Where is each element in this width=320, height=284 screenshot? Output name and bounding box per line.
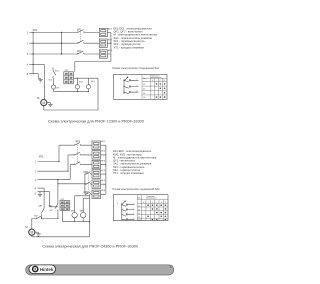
- svg-text:ЕК4: ЕК4: [101, 170, 106, 172]
- wire coil KM2 top: [83, 198, 89, 212]
- svg-text:ХТ1 - колодки клеммные: ХТ1 - колодки клеммные: [113, 171, 144, 175]
- heater EK5 s2: [92, 180, 101, 188]
- breaker QF2 label: [77, 50, 82, 53]
- svg-text:SА1: SА1: [38, 205, 43, 208]
- heater EK3: [99, 50, 107, 58]
- svg-text:3-4: 3-4: [143, 88, 145, 90]
- wire L4 bus 2: [38, 187, 45, 189]
- svg-text:1: 1: [133, 203, 134, 205]
- contactor KM2 contact: [86, 192, 92, 195]
- svg-text:1: 1: [137, 79, 138, 81]
- svg-text:3: 3: [27, 53, 29, 56]
- contactor coil KM1: [72, 212, 77, 217]
- svg-text:Конт.: Конт.: [138, 197, 142, 199]
- relay SK2 bulb: [75, 85, 79, 89]
- footer bar: [26, 265, 174, 275]
- svg-text:3-4: 3-4: [138, 209, 140, 211]
- svg-text:17: 17: [169, 265, 173, 269]
- heater EK1 label: [108, 29, 113, 31]
- svg-text:КМ1: КМ1: [71, 210, 76, 212]
- heater EK3 s2: [92, 160, 101, 168]
- svg-text:ЕК1: ЕК1: [108, 29, 113, 31]
- legend 1: [114, 26, 158, 49]
- breaker QF1 label: [77, 28, 82, 31]
- heater EK3 label: [108, 50, 113, 52]
- svg-text:М: М: [25, 225, 28, 229]
- heater EK6 s2 label: [101, 190, 106, 192]
- node dot KM branch: [57, 183, 85, 184]
- motor M1 s2: [29, 229, 35, 235]
- lamp HL1 bulb: [86, 85, 90, 89]
- switch SA1 pictogram 1: [120, 77, 139, 94]
- motor M1: [41, 100, 47, 106]
- node dot control top: [77, 78, 78, 79]
- svg-text:1: 1: [35, 161, 37, 164]
- svg-text:9-10: 9-10: [138, 219, 141, 221]
- switch SA1 pictogram 2: [117, 201, 135, 220]
- svg-text:переключателя: переключателя: [146, 198, 157, 200]
- svg-text:4: 4: [27, 64, 29, 67]
- logo Hintek pill: [29, 265, 56, 274]
- wire L4 bus: [29, 64, 44, 66]
- node dot star: [110, 43, 111, 44]
- svg-text:2: 2: [133, 208, 134, 210]
- svg-text:ЕК1: ЕК1: [101, 141, 106, 143]
- svg-text:Hintek: Hintek: [40, 267, 54, 272]
- wire SK2 stubs: [53, 79, 55, 92]
- svg-text:5-6: 5-6: [143, 93, 145, 95]
- node labels 1-5 left: [27, 32, 29, 76]
- svg-text:0: 0: [117, 203, 118, 205]
- thermal cutout SK1 s2: [55, 204, 58, 219]
- heater EK5 s2 label: [101, 180, 106, 182]
- node dots tap: [61, 32, 62, 55]
- svg-text:M: M: [43, 101, 46, 105]
- contactor KM1 contacts: [86, 172, 92, 175]
- svg-text:2: 2: [137, 85, 138, 87]
- svg-text:ХТ1 - колодка клеммная: ХТ1 - колодка клеммная: [114, 45, 145, 49]
- heater EK2 s2: [92, 151, 101, 159]
- svg-text:1: 1: [27, 32, 29, 35]
- wire plug vertical bus: [32, 33, 34, 74]
- contactor coil KM1 label: [71, 210, 76, 212]
- svg-text:НL1: НL1: [91, 81, 96, 83]
- wire heater star: [75, 33, 111, 72]
- heater EK6 s2: [92, 190, 101, 198]
- svg-text:3: 3: [137, 90, 138, 92]
- SA1 wiring inset caption 1: [112, 66, 160, 70]
- ground motor 2: [35, 232, 41, 236]
- heater EK2: [99, 39, 107, 47]
- heater EK4 s2 label: [101, 170, 106, 172]
- wire riser row2: [68, 155, 75, 171]
- logo Hintek emblem circle: [33, 266, 38, 271]
- wire motor bottom 2: [31, 235, 33, 237]
- breaker QF1 contact pole 2: [78, 40, 84, 43]
- logo Hintek text: [40, 267, 54, 272]
- svg-text:ХР1: ХР1: [33, 28, 38, 32]
- terminal block XT1 label: [65, 70, 70, 72]
- contactor KM link dashed: [87, 173, 89, 193]
- svg-text:ХР1: ХР1: [39, 154, 44, 158]
- terminal block XT1 s2 label: [61, 199, 66, 201]
- plug XP1 label: [33, 28, 38, 32]
- svg-text:95С: 95С: [50, 210, 54, 212]
- svg-text:ХТ1: ХТ1: [65, 70, 70, 72]
- svg-text:ЕК5: ЕК5: [101, 180, 106, 182]
- svg-text:2: 2: [152, 202, 153, 204]
- svg-text:1: 1: [148, 202, 149, 204]
- svg-text:3: 3: [156, 202, 157, 204]
- junction dots plug: [32, 32, 33, 65]
- lamp HL1 label: [91, 81, 96, 83]
- svg-text:ЕК3: ЕК3: [101, 160, 106, 162]
- svg-text:4: 4: [161, 202, 162, 204]
- terminal block XT1: [64, 72, 74, 84]
- wire L1 bus: [29, 32, 99, 34]
- svg-text:Схема электрическая для PROF-1: Схема электрическая для PROF-12300 и PRO…: [48, 119, 144, 123]
- svg-text:М: М: [37, 96, 40, 100]
- heater EK2 s2 label: [101, 151, 106, 153]
- thermostat SK2 label: [56, 87, 59, 89]
- svg-text:SК2: SК2: [79, 81, 84, 83]
- terminal block XT1 s2: [60, 201, 70, 211]
- wire riser row3: [70, 165, 75, 180]
- heater EK4 s2: [92, 170, 101, 178]
- contactor KM2 label: [84, 191, 89, 194]
- wire L5 bus: [29, 73, 38, 75]
- SA1 inset box 1: [114, 75, 168, 100]
- ground supply PE 2: [38, 191, 42, 196]
- breaker QF2 contact: [78, 51, 84, 54]
- wire return loop: [44, 78, 98, 110]
- wire L3 drop to controls: [57, 180, 59, 204]
- heater EK3 s2 label: [101, 160, 106, 162]
- svg-text:5-6: 5-6: [138, 213, 140, 215]
- wire PE drop: [49, 191, 58, 206]
- svg-text:7-8: 7-8: [143, 97, 145, 99]
- wire L2 bus 2: [38, 170, 69, 172]
- wire row5 stub: [85, 183, 86, 185]
- svg-text:1-2: 1-2: [143, 84, 145, 86]
- legend 2: [113, 149, 157, 175]
- ground supply PE: [38, 74, 42, 82]
- wire coils bottom: [62, 211, 89, 222]
- svg-text:1-2: 1-2: [138, 206, 140, 208]
- thermostat SK2 s2 contact: [37, 216, 42, 218]
- svg-text:ЕК3: ЕК3: [108, 50, 113, 52]
- wire L1 bus 2: [38, 161, 60, 163]
- svg-text:переключателя: переключателя: [151, 77, 162, 79]
- thermal cutout SK1 s2 label: [48, 205, 53, 212]
- svg-text:7-8: 7-8: [138, 217, 140, 219]
- breaker QF1 contact pole 1: [78, 30, 84, 33]
- wire relay stubs: [76, 78, 78, 91]
- svg-text:Конт.: Конт.: [143, 78, 147, 80]
- breaker QF1 label 2: [75, 140, 80, 143]
- switch table 2: [137, 195, 168, 222]
- motor M1 label: [37, 96, 40, 100]
- contactor coil KM2 label: [80, 210, 85, 212]
- wire L2 bus: [29, 42, 99, 44]
- switch SA1 contact in motor branch: [42, 208, 45, 218]
- node dot right return: [89, 221, 90, 222]
- svg-text:SК1: SК1: [55, 71, 60, 73]
- plug XP1 label 2: [39, 154, 44, 158]
- wire row4 stub: [85, 173, 86, 175]
- breaker QF1 contacts 2: [75, 142, 92, 145]
- wire control bottom: [54, 91, 89, 93]
- wire L3 bus: [29, 53, 99, 55]
- svg-text:3: 3: [35, 179, 37, 182]
- thermostat SK2 s2 label: [34, 215, 39, 217]
- caption schematic 1: [48, 119, 144, 123]
- wire KM feed vertical: [84, 174, 86, 194]
- relay SK2 label: [79, 81, 84, 83]
- SA1 inset box 2: [114, 195, 169, 221]
- node dot riser2: [67, 171, 68, 172]
- wire L4 drop 2: [43, 188, 45, 208]
- thermal cutout SK1 label: [49, 71, 60, 82]
- svg-text:5: 5: [165, 202, 166, 204]
- wire control top: [73, 77, 98, 79]
- node dot riser1: [58, 161, 59, 162]
- switch table 1: [142, 75, 167, 100]
- heater EK2 label: [108, 39, 113, 41]
- page number: [169, 265, 173, 269]
- wire right return: [32, 194, 90, 237]
- node labels 1-5 left 2: [35, 161, 37, 196]
- heater EK1: [99, 28, 107, 36]
- node dot L3 drop: [57, 179, 58, 180]
- svg-text:Схема электрическая для PROF-2: Схема электрическая для PROF-24300 и PRO…: [42, 244, 138, 248]
- ground motor: [47, 103, 53, 107]
- breaker QF1 link dashed 2: [77, 143, 79, 162]
- svg-text:95С: 95С: [49, 80, 53, 82]
- node dots motor branch: [41, 218, 59, 219]
- svg-text:SК2: SК2: [34, 215, 39, 217]
- svg-text:M: M: [31, 231, 34, 235]
- svg-text:0: 0: [152, 80, 153, 82]
- wire motor feed: [43, 65, 45, 100]
- node dots control bottom: [77, 91, 89, 92]
- thermal cutout SK1: [53, 68, 56, 79]
- svg-text:5: 5: [35, 193, 37, 196]
- svg-text:5: 5: [27, 73, 29, 76]
- svg-text:Схема электрических соединений: Схема электрических соединений SA1: [112, 187, 160, 191]
- caption schematic 2: [42, 244, 138, 248]
- wire coil KM1 top: [75, 196, 90, 213]
- svg-text:Схема электрических соединений: Схема электрических соединений SA1: [112, 66, 160, 70]
- breaker QF1 link dashed: [80, 31, 82, 42]
- wire heater star 2: [101, 145, 106, 194]
- heater EK1 s2: [92, 141, 101, 149]
- wire lamp stubs: [87, 78, 89, 91]
- wire row6 stub: [85, 193, 86, 195]
- svg-text:0: 0: [143, 202, 144, 204]
- wire L3 bus 2: [38, 179, 71, 181]
- svg-text:КМ2: КМ2: [80, 210, 85, 212]
- wire motor branch 2: [32, 219, 58, 230]
- wire riser row1: [59, 145, 75, 161]
- svg-text:0: 0: [120, 79, 121, 81]
- svg-text:2: 2: [27, 42, 29, 45]
- wire phase tap vertical: [61, 33, 63, 55]
- svg-text:ЕК6: ЕК6: [101, 190, 106, 192]
- svg-text:(Р): (Р): [56, 87, 59, 89]
- svg-text:2: 2: [35, 170, 37, 173]
- heater EK1 s2 label: [101, 141, 106, 143]
- svg-text:4: 4: [35, 187, 37, 190]
- motor M1 s2 label: [25, 225, 28, 229]
- SA1 wiring inset caption 2: [112, 187, 160, 191]
- wire L5 bus 2: [38, 190, 50, 192]
- svg-text:ЕК2: ЕК2: [101, 151, 106, 153]
- thermostat SK2 bulb: [51, 85, 55, 89]
- wire KM branch: [58, 183, 85, 185]
- svg-text:ЕК2: ЕК2: [108, 39, 113, 41]
- switch SA1 branch label: [38, 205, 43, 208]
- contactor coil KM2: [81, 212, 86, 217]
- svg-text:3: 3: [133, 213, 134, 215]
- contactor KM1 label: [84, 171, 89, 174]
- svg-text:4: 4: [133, 218, 134, 220]
